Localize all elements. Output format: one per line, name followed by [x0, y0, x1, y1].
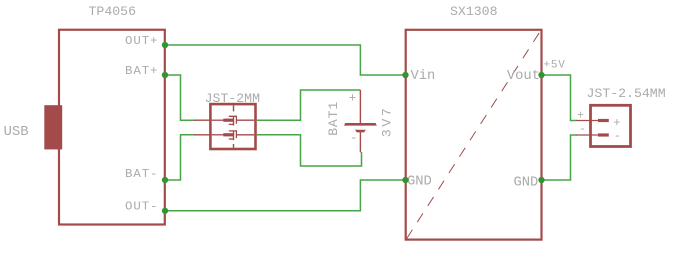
junction dot BAT+ — [162, 72, 168, 78]
svg-text:TP4056: TP4056 — [89, 4, 137, 19]
USB connector pad — [44, 105, 62, 149]
JST-2MM pin 1 lead left — [194, 119, 212, 121]
svg-text:USB: USB — [4, 124, 29, 140]
battery short plate — [355, 130, 366, 133]
junction dot OUT- — [162, 208, 168, 214]
svg-text:+: + — [349, 92, 357, 106]
junction dot Vout — [538, 72, 544, 78]
wire JST-2MM pin1 to battery plus — [257, 90, 361, 120]
wire GND to JST-2.54MM pin 2 — [542, 135, 578, 180]
svg-text:GND: GND — [513, 175, 538, 190]
wire JST-2MM pin2 to battery minus — [257, 135, 362, 166]
wire OUT- to GND — [165, 180, 405, 211]
svg-text:OUT+: OUT+ — [125, 34, 158, 48]
JST-2.54MM pin 1 bar — [598, 119, 609, 122]
svg-text:-: - — [579, 123, 586, 136]
svg-text:Vout: Vout — [507, 69, 540, 84]
junction dot BAT- — [162, 177, 168, 183]
wire BAT+ to JST-2MM pin 1 — [165, 75, 196, 120]
JST-2MM center dashed line — [233, 105, 235, 148]
svg-text:BAT-: BAT- — [125, 167, 158, 181]
junction dot GND right — [538, 177, 544, 183]
IC U2 SX1308 boost converter — [406, 30, 542, 240]
svg-text:+: + — [577, 109, 584, 122]
svg-text:OUT-: OUT- — [125, 200, 158, 214]
battery long plate — [344, 123, 377, 126]
JST-2MM pin 2 glyph — [212, 131, 254, 139]
JST-2.54MM pin 2 lead — [577, 134, 599, 136]
IC U1 TP4056 — [59, 30, 165, 225]
svg-text:JST-2.54MM: JST-2.54MM — [587, 86, 666, 101]
JST-2MM pin 2 lead left — [194, 134, 212, 136]
svg-text:-: - — [614, 129, 621, 143]
wire OUT+ to Vin — [165, 45, 405, 75]
svg-text:BAT+: BAT+ — [125, 64, 158, 78]
dashed diagonal inside SX1308 — [407, 31, 541, 239]
junction dot OUT+ — [162, 42, 168, 48]
JST-2.54MM pin 1 lead — [577, 120, 599, 122]
junction dot Vin — [402, 72, 408, 78]
wire Vout to JST-2.54MM pin 1 — [542, 75, 578, 121]
svg-text:BAT1: BAT1 — [326, 101, 341, 136]
battery minus lead — [359, 132, 361, 152]
svg-text:JST-2MM: JST-2MM — [205, 91, 260, 106]
wire BAT- to JST-2MM pin 2 — [165, 135, 196, 180]
svg-text:GND: GND — [407, 175, 432, 190]
svg-text:-: - — [350, 132, 358, 146]
junction dot GND left — [402, 177, 408, 183]
battery plus lead — [359, 90, 361, 123]
svg-text:+5V: +5V — [544, 60, 566, 72]
JST-2MM pin 1 glyph — [212, 116, 254, 124]
connector J2 JST-2.54MM — [591, 105, 631, 146]
svg-text:3V7: 3V7 — [380, 106, 395, 138]
svg-text:SX1308: SX1308 — [450, 4, 498, 19]
svg-text:Vin: Vin — [411, 68, 436, 84]
connector J1 JST-2MM — [210, 104, 255, 149]
JST-2.54MM pin 2 bar — [598, 133, 609, 136]
